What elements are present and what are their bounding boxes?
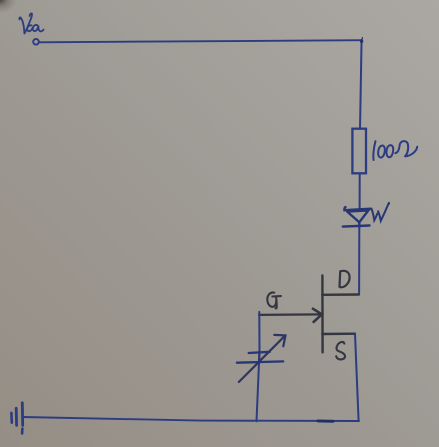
variable adjustment arrow <box>239 335 286 382</box>
wire right drop to resistor <box>360 40 362 129</box>
corner pen blob <box>360 40 363 43</box>
variable capacitor C1 plates <box>237 351 283 363</box>
wire LED to transistor drain <box>358 227 360 295</box>
pin label G <box>267 292 281 308</box>
pin label D <box>340 271 350 287</box>
transistor Q1 NMOS body <box>322 276 359 353</box>
wire bottom rail <box>23 417 359 421</box>
label 100 ohm value <box>373 141 417 160</box>
resistor R1 100 ohm <box>352 129 366 174</box>
wire source to bottom rail <box>355 334 359 421</box>
wire resistor to LED <box>359 173 361 208</box>
wire top rail <box>39 40 362 42</box>
LED light emission squiggle <box>372 203 389 221</box>
ground symbol <box>11 403 22 434</box>
LED D1 <box>343 207 371 227</box>
gate wire with arrowhead <box>259 309 322 322</box>
power label Vcc <box>19 13 43 33</box>
junction blob on bottom rail <box>318 419 333 422</box>
wire gate to bottom rail <box>257 312 260 421</box>
node Vcc terminal <box>33 39 39 45</box>
pin label S <box>336 342 345 360</box>
